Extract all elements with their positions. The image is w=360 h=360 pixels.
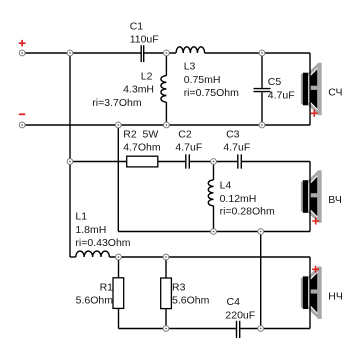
plus terminal mark	[19, 40, 26, 47]
wire speaker НЧ vertical	[309, 257, 311, 329]
speaker СЧ (midrange) symbol	[301, 63, 322, 115]
node row4 x213	[211, 229, 217, 235]
resistor R1 body	[113, 278, 124, 309]
node row2 x118	[115, 122, 121, 128]
node row2 x166	[164, 122, 170, 128]
svg-text:L1: L1	[75, 211, 87, 223]
node row5 x118	[116, 254, 122, 260]
wire vertical x=70	[69, 53, 71, 257]
svg-text:C5: C5	[268, 76, 282, 88]
wire vertical x=118.3 row2 to row4	[117, 125, 119, 232]
capacitor C1 plates	[141, 45, 144, 62]
capacitor C3 plates	[238, 154, 242, 168]
wire row6 segment 2	[240, 328, 310, 330]
svg-text:L3: L3	[184, 61, 196, 73]
wire speaker ВЧ vertical	[309, 162, 311, 232]
wire row5 left corner	[70, 256, 76, 258]
wire R1 leads	[118, 257, 120, 329]
svg-text:0.12mH: 0.12mH	[220, 193, 257, 205]
node row2 x262	[259, 122, 265, 128]
svg-text:110uF: 110uF	[130, 34, 159, 46]
svg-text:ri=0.75Ohm: ri=0.75Ohm	[184, 87, 239, 99]
node row4 x260	[258, 229, 264, 235]
svg-text:5.6Ohm: 5.6Ohm	[172, 295, 210, 307]
capacitor C5 plates	[254, 89, 271, 92]
minus terminal mark	[19, 113, 25, 115]
node row5 x166	[163, 254, 169, 260]
svg-text:4.7uF: 4.7uF	[175, 141, 202, 153]
wire row1 C1 to L3	[144, 52, 176, 54]
svg-text:ri=3.7Ohm: ri=3.7Ohm	[92, 97, 142, 109]
terminal plus	[19, 50, 25, 56]
svg-text:ВЧ: ВЧ	[328, 194, 342, 206]
node row1 x262	[259, 50, 265, 56]
inductor L3 coil	[176, 47, 204, 53]
inductor L1 coil	[76, 251, 110, 257]
speaker ВЧ plus mark	[312, 218, 319, 225]
svg-text:C4: C4	[227, 296, 241, 308]
svg-text:ri=0.43Ohm: ri=0.43Ohm	[75, 237, 130, 249]
resistor R2 body	[127, 156, 158, 167]
svg-text:C1: C1	[130, 20, 144, 32]
capacitor C2 plates	[186, 154, 190, 168]
svg-text:C2: C2	[178, 129, 192, 141]
svg-text:5.6Ohm: 5.6Ohm	[76, 295, 114, 307]
wire row6 segment 1	[119, 328, 236, 330]
resistor R3 body	[161, 278, 172, 309]
node row6 x166	[163, 326, 169, 332]
node row6 x260	[258, 326, 264, 332]
wire row3 segment 3	[242, 161, 310, 163]
capacitor C4 plates	[237, 321, 240, 338]
node row1 x166	[164, 50, 170, 56]
wire vertical row4 to row6	[260, 232, 262, 329]
wire row1 right	[205, 52, 310, 54]
svg-text:R3: R3	[172, 282, 186, 294]
svg-text:R2 5W: R2 5W	[123, 129, 158, 141]
svg-text:4.7Ohm: 4.7Ohm	[123, 141, 161, 153]
speaker НЧ (woofer) symbol	[301, 267, 322, 319]
speaker НЧ plus mark	[312, 266, 319, 273]
terminal minus	[19, 122, 25, 128]
svg-text:НЧ: НЧ	[328, 291, 343, 303]
svg-text:L2: L2	[141, 71, 153, 83]
wire row1 left (+ to C1)	[22, 52, 141, 54]
speaker СЧ plus mark	[311, 110, 318, 117]
wire C5 leads	[261, 53, 263, 125]
wire R3 leads	[165, 257, 167, 329]
node row1 x70	[67, 50, 73, 56]
svg-text:СЧ: СЧ	[328, 87, 342, 99]
svg-text:L4: L4	[220, 179, 232, 191]
speaker ВЧ (tweeter) symbol	[301, 170, 322, 222]
node row3 x70	[67, 159, 73, 165]
svg-text:C3: C3	[226, 129, 240, 141]
wire row3 segment 1	[70, 161, 185, 163]
svg-text:4.3mH: 4.3mH	[123, 84, 154, 96]
wire speaker СЧ vertical	[309, 53, 311, 125]
svg-text:1.8mH: 1.8mH	[75, 224, 106, 236]
svg-text:0.75mH: 0.75mH	[184, 74, 221, 86]
svg-text:R1: R1	[100, 281, 114, 293]
wire L4 leads	[213, 162, 215, 232]
inductor L2 coil	[161, 76, 167, 102]
wire row5 right	[109, 256, 310, 258]
svg-text:4.7uF: 4.7uF	[223, 141, 250, 153]
svg-text:220uF: 220uF	[225, 309, 255, 321]
node row3 x213	[211, 159, 217, 165]
wire row3 segment 2	[190, 161, 237, 163]
inductor L4 coil	[208, 180, 213, 206]
svg-text:ri=0.28Ohm: ri=0.28Ohm	[220, 206, 275, 218]
wire row2 (minus rail)	[22, 124, 310, 126]
svg-text:4.7uF: 4.7uF	[268, 89, 295, 101]
wire L2 leads	[165, 53, 167, 125]
wire row4	[118, 231, 310, 233]
